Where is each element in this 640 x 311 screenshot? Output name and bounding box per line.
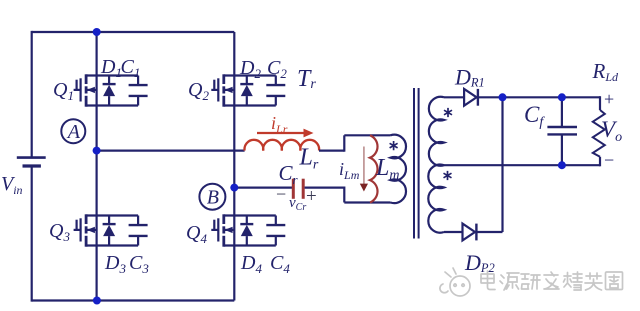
svg-text:−: − [276,184,286,204]
svg-text:B: B [207,187,219,209]
svg-text:+: + [306,186,317,207]
svg-text:−: − [604,150,614,170]
svg-text:+: + [604,89,614,109]
svg-text:A: A [66,121,81,143]
